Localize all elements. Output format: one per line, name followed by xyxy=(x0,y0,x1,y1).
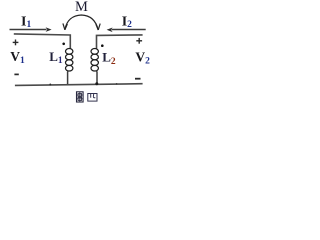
plus sign V2 xyxy=(136,38,142,44)
minus sign V1 xyxy=(14,73,18,75)
inductor L1 xyxy=(66,49,73,71)
junction speck left xyxy=(49,84,51,86)
caption character four xyxy=(88,94,97,102)
current arrow I1 xyxy=(10,27,52,32)
polarity dot L1 xyxy=(62,43,65,46)
plus sign V1 xyxy=(13,40,19,46)
junction dot L2 lead xyxy=(95,82,98,85)
wire L2 bottom lead xyxy=(96,71,97,84)
current arrow I2 xyxy=(107,28,146,33)
svg-text:M: M xyxy=(75,0,88,15)
caption character tu (figure) xyxy=(77,92,84,102)
wire top-right xyxy=(97,35,143,49)
inductor L2 xyxy=(91,49,98,71)
wire top-left xyxy=(14,34,71,49)
junction speck right xyxy=(116,83,118,85)
mutual inductance arc M xyxy=(63,15,100,30)
polarity dot L2 xyxy=(101,44,104,47)
minus sign V2 xyxy=(135,78,141,80)
wire L1 bottom lead xyxy=(67,71,70,85)
wire bottom xyxy=(15,84,143,86)
